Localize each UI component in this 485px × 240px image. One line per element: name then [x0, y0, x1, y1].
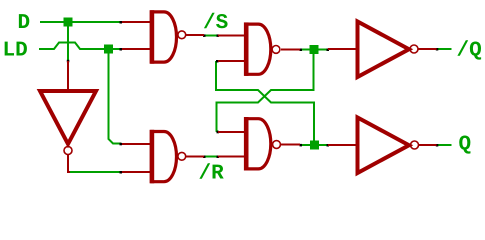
black endpoint dots — [67, 21, 439, 174]
wire net /R (green segment) — [204, 156, 218, 158]
nand U1 body — [152, 12, 177, 62]
nand U3 (latch top) pin stubs — [218, 36, 300, 62]
wire D horizontal left — [40, 21, 121, 23]
svg-text:D: D — [18, 12, 31, 35]
node D junction square — [64, 18, 73, 27]
inverter U5 output stub — [68, 155, 70, 172]
node /Q junction square — [310, 45, 319, 54]
wire net /S (green segment) — [204, 35, 218, 37]
inverter U7 (bottom right) input stub — [328, 144, 357, 146]
wire D junction to inverter U5 (vertical) — [67, 26, 69, 61]
inverter U5 (left, pointing down) input stub — [67, 61, 69, 90]
wire LD with hop — [39, 43, 104, 50]
wire LD junction down to NAND U2 pin1 — [109, 54, 122, 144]
wire U3 output to /Q junction — [301, 49, 310, 51]
wire Q junction to inverter U7 — [319, 144, 328, 146]
nand U4 (latch bottom) pin stubs — [218, 132, 300, 157]
nand U1 output bubble — [178, 31, 186, 39]
inverter U5 body — [40, 91, 96, 144]
nand U2 body — [152, 132, 177, 182]
wire feedback Q to U3 pin2 (with crossover) — [216, 61, 314, 141]
inverter U6 output stub — [419, 48, 437, 50]
nand U4 output bubble — [273, 141, 281, 149]
inverter U5 output bubble — [64, 147, 72, 155]
nand U2 (bottom-left) pin stubs — [122, 144, 204, 172]
svg-text:/R: /R — [199, 163, 225, 186]
node Q junction square — [310, 141, 319, 150]
node LD junction square — [104, 45, 113, 54]
wire U7 output to Q label — [438, 144, 452, 146]
inverter U6 (top right) input stub — [328, 48, 357, 50]
wire /Q junction to inverter U6 — [319, 49, 328, 51]
inverter U6 output bubble — [410, 45, 418, 53]
svg-text:LD: LD — [3, 40, 28, 63]
wire LD junction to NAND U1 pin2 — [113, 48, 121, 50]
wire U4 output to Q junction — [301, 144, 310, 146]
nand U2 output bubble — [178, 152, 186, 160]
nand U3 output bubble — [272, 46, 280, 54]
inverter U6 body — [358, 22, 410, 78]
wire U5 output to NAND U2 pin2 — [69, 171, 121, 173]
nand U1 (top-left) pin stubs — [122, 22, 204, 49]
inverter U7 output bubble — [411, 141, 419, 149]
svg-text:/S: /S — [203, 12, 228, 35]
wire feedback /Q to U4 pin1 (with crossover) — [217, 54, 314, 132]
nand U4 body — [246, 119, 271, 169]
nand U3 body — [246, 24, 271, 74]
inverter U7 output stub — [419, 144, 437, 146]
svg-text:Q: Q — [459, 134, 472, 157]
inverter U7 body — [358, 118, 410, 174]
wire U6 output to /Q label — [438, 48, 452, 50]
svg-text:/Q: /Q — [457, 40, 482, 63]
